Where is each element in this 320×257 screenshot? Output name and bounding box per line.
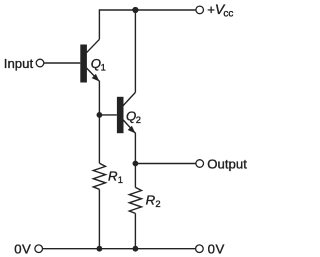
- junction node: Q2 collector to +Vcc rail: [132, 7, 138, 13]
- wire Q2 emitter down to output node: [134, 133, 136, 188]
- wire output: [135, 163, 196, 165]
- wire bottom 0V rail: [42, 248, 196, 250]
- svg-text:R: R: [146, 193, 156, 208]
- svg-text:Q: Q: [91, 56, 101, 71]
- junction node: R2 to 0V rail: [133, 246, 139, 252]
- resistor R1: [93, 163, 105, 189]
- svg-text:Output: Output: [207, 156, 247, 171]
- terminal 0V left: [35, 245, 43, 253]
- svg-text:2: 2: [136, 114, 141, 125]
- terminal +Vcc: [196, 6, 204, 14]
- junction node: Q2 base: [97, 112, 103, 118]
- resistor R2: [129, 187, 141, 213]
- transistor Q2: [117, 92, 135, 133]
- label Q1: [91, 56, 106, 73]
- wire input to Q1 base: [44, 62, 81, 64]
- svg-text:1: 1: [101, 61, 106, 72]
- label R1: [108, 169, 123, 186]
- terminal Output: [196, 160, 204, 168]
- wire Q1 collector vertical: [98, 9, 100, 39]
- label R2: [146, 193, 161, 210]
- svg-text:R: R: [108, 169, 118, 184]
- wire Q1 emitter down to R1: [98, 81, 100, 163]
- transistor Q1: [80, 39, 99, 82]
- svg-text:2: 2: [155, 198, 160, 209]
- wire top +Vcc rail: [99, 9, 196, 11]
- svg-text:1: 1: [118, 174, 123, 185]
- wire R1 bottom: [98, 189, 100, 248]
- junction node: R1 to 0V rail: [97, 246, 103, 252]
- wire Q2 collector vertical: [134, 10, 136, 92]
- svg-text:Q: Q: [126, 108, 136, 123]
- svg-text:cc: cc: [223, 9, 233, 20]
- svg-text:Input: Input: [4, 56, 34, 71]
- wire to Q2 base: [99, 114, 117, 116]
- junction node: output: [133, 161, 139, 167]
- label +Vcc: [207, 1, 233, 20]
- svg-text:0V: 0V: [208, 241, 225, 256]
- wire R2 bottom: [134, 213, 136, 248]
- terminal Input: [36, 59, 44, 67]
- svg-text:0V: 0V: [14, 241, 31, 256]
- terminal 0V right: [196, 245, 204, 253]
- label Q2: [126, 108, 141, 125]
